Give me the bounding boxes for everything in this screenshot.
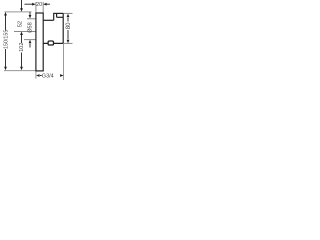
wire: wall reference extension line top bbox=[5, 11, 32, 13]
wire: bottom-left extension below channel bbox=[35, 71, 37, 79]
wire: step bottom edge bbox=[43, 19, 54, 21]
svg-text:80: 80 bbox=[66, 22, 72, 29]
node dimension 58 middle bbox=[29, 12, 32, 48]
wire: pipe line down right bbox=[63, 44, 65, 80]
wire: channel bottom edge bbox=[35, 70, 43, 72]
wire: right extension line top bbox=[63, 12, 72, 14]
wire: 20-dim right extension bbox=[42, 2, 44, 13]
wire: channel left edge bbox=[35, 13, 37, 71]
wire: right extension line bottom bbox=[64, 42, 73, 44]
svg-text:G3/4: G3/4 bbox=[42, 74, 54, 80]
wire: body bottom edge bbox=[43, 42, 63, 44]
svg-text:52: 52 bbox=[18, 21, 24, 27]
node port detail bbox=[48, 41, 53, 45]
node body outline bbox=[35, 13, 63, 71]
wire: body top edge bbox=[53, 12, 63, 14]
svg-text:Ø58: Ø58 bbox=[27, 22, 33, 33]
wire: union bottom edge bbox=[57, 16, 64, 18]
wire: union left edge bbox=[56, 13, 58, 17]
background bbox=[0, 0, 73, 80]
node dimension 102 bbox=[20, 0, 23, 70]
wire: bottom extension line bbox=[4, 70, 36, 72]
wire: step vertical bbox=[53, 13, 55, 20]
node dimension 155 left bbox=[4, 12, 7, 70]
svg-text:20: 20 bbox=[36, 2, 42, 8]
wire: 20-dim left extension bbox=[35, 2, 37, 13]
wire: channel right edge bbox=[42, 13, 44, 71]
wire: body right edge bbox=[62, 13, 64, 43]
svg-text:150/155: 150/155 bbox=[3, 30, 9, 49]
wire: extension line y31.5 bbox=[14, 31, 36, 33]
wire: extension line y39.6 bbox=[24, 39, 36, 41]
wire: channel top edge bbox=[35, 12, 43, 14]
wire: extension line y18.8 bbox=[27, 18, 36, 20]
node thread label G3/4 bottom bbox=[36, 74, 64, 77]
node dimension 80 right bbox=[67, 14, 70, 44]
node dimension 20 top bbox=[25, 3, 51, 6]
svg-text:102: 102 bbox=[19, 42, 25, 51]
